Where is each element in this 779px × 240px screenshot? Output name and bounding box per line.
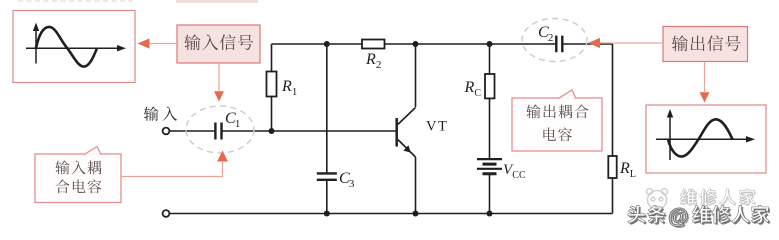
- svg-text:R: R: [619, 160, 630, 177]
- svg-text:C: C: [474, 88, 481, 99]
- svg-text:R: R: [365, 51, 376, 68]
- svg-text:1: 1: [292, 86, 298, 98]
- svg-text:2: 2: [548, 32, 554, 44]
- svg-text:CC: CC: [512, 170, 526, 181]
- svg-text:L: L: [630, 169, 636, 180]
- svg-text:R: R: [281, 78, 292, 95]
- svg-text:@: @: [668, 206, 688, 229]
- svg-text:3: 3: [349, 178, 355, 190]
- svg-text:2: 2: [376, 59, 382, 71]
- svg-text:VT: VT: [426, 119, 448, 135]
- svg-text:R: R: [464, 79, 475, 96]
- svg-text:1: 1: [235, 118, 241, 130]
